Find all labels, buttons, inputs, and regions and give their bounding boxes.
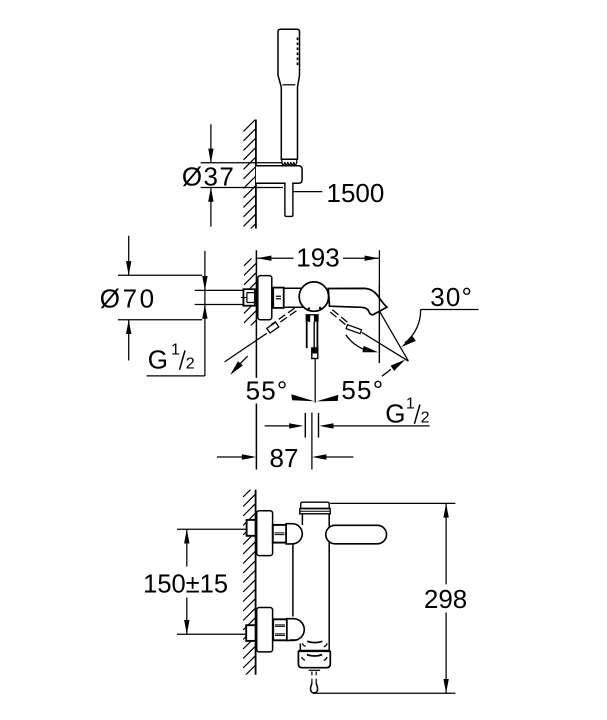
svg-text:Ø70: Ø70: [100, 283, 157, 313]
svg-text:1500: 1500: [327, 178, 385, 208]
svg-text:55°: 55°: [341, 375, 384, 405]
svg-text:30°: 30°: [430, 282, 473, 312]
svg-text:150±15: 150±15: [143, 570, 228, 598]
svg-text:1: 1: [171, 341, 180, 358]
svg-text:193: 193: [296, 243, 339, 273]
svg-text:55°: 55°: [246, 375, 289, 405]
svg-text:1: 1: [406, 395, 415, 412]
svg-text:G: G: [148, 345, 168, 375]
svg-text:2: 2: [186, 356, 195, 373]
svg-text:298: 298: [424, 584, 467, 614]
svg-text:87: 87: [270, 443, 299, 473]
svg-text:Ø37: Ø37: [182, 161, 235, 191]
svg-text:2: 2: [421, 410, 430, 427]
svg-text:G: G: [385, 399, 405, 429]
